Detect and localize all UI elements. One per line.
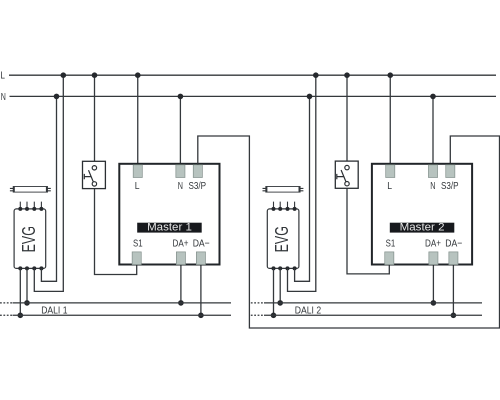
wire L to switch S2 xyxy=(346,75,348,166)
EVG1 bottom terminal dots xyxy=(18,266,22,270)
mains line L xyxy=(9,74,496,76)
wire L to master1 L pad xyxy=(137,75,139,165)
svg-text:Master 1: Master 1 xyxy=(147,222,192,234)
wire EVG2 t3 to mains L xyxy=(288,75,316,291)
pad S3/P (M1) xyxy=(193,165,202,178)
node DALI2 lower/t1' xyxy=(271,313,277,319)
junction dots system 1 xyxy=(18,72,204,318)
lamp EL2 fluorescent tube xyxy=(263,187,304,193)
node N/t4 xyxy=(54,94,60,100)
pad L (M1) xyxy=(133,165,142,178)
node DALI1 upper/DA+ xyxy=(178,300,184,306)
svg-text:N: N xyxy=(1,91,6,103)
svg-text:EVG: EVG xyxy=(18,226,39,252)
ballast EVG1 box xyxy=(14,209,46,269)
svg-text:L: L xyxy=(135,180,140,192)
pad S1 (M2) xyxy=(385,252,394,265)
wire EVG2 t2 to DALI2 upper xyxy=(279,268,281,303)
DALI 1 bus upper line xyxy=(0,303,231,315)
wire EVG1 t3 to mains L xyxy=(34,75,63,291)
DALI master unit Master 2 box xyxy=(372,164,472,265)
DALI 2 bus lower line xyxy=(251,314,264,316)
svg-text:L: L xyxy=(387,180,392,192)
svg-text:S1: S1 xyxy=(386,238,396,250)
node DALI1 lower/DA- xyxy=(198,313,204,319)
tag Master 1 xyxy=(137,222,202,234)
svg-text:Master 2: Master 2 xyxy=(400,222,445,234)
node N/t4' xyxy=(307,94,313,100)
node DALI2 upper/t2' xyxy=(277,300,283,306)
svg-text:DA−: DA− xyxy=(193,238,210,250)
wire N to master1 N pad xyxy=(179,96,181,164)
push-button switch S1 xyxy=(83,161,106,188)
wire S3/P link master1 to master2 (wrap) xyxy=(198,136,500,328)
push-button switch S2 xyxy=(335,161,358,188)
pad L (M2) xyxy=(386,165,395,178)
wire N to master2 N pad xyxy=(432,96,434,164)
pad S3/P (M2) xyxy=(446,165,455,178)
svg-text:DALI 2: DALI 2 xyxy=(295,305,321,316)
ballast EVG2 box xyxy=(267,209,299,269)
node L/switch xyxy=(92,72,98,78)
master2 terminal pads xyxy=(385,165,458,265)
tag Master 2 xyxy=(390,222,455,234)
svg-text:N: N xyxy=(430,180,435,192)
pad S1 (M1) xyxy=(132,252,141,265)
node L/t3' xyxy=(313,72,319,78)
pad N (M2) xyxy=(428,165,437,178)
DALI master unit Master 1 box xyxy=(119,164,219,265)
svg-text:N: N xyxy=(178,180,183,192)
node DALI2 upper/DA+' xyxy=(431,300,437,306)
wire EVG2 t4 to mains N xyxy=(295,96,310,281)
svg-text:S3/P: S3/P xyxy=(441,180,459,192)
pad N (M1) xyxy=(176,165,185,178)
node DALI1 upper/t2 xyxy=(24,300,30,306)
wire master2 DA+ to DALI2 upper xyxy=(432,265,434,303)
node N/master1 xyxy=(178,94,184,100)
wire switch S2 to master2 S1 pad xyxy=(347,186,389,274)
node L/switch2 xyxy=(344,72,350,78)
node DALI2 lower/DA-' xyxy=(451,313,457,319)
svg-text:S1: S1 xyxy=(133,238,143,250)
wire master2 DA- to DALI2 lower xyxy=(452,265,454,316)
pad DA- (M2) xyxy=(449,252,458,265)
wire EVG1 t4 to mains N xyxy=(41,96,56,281)
node L/master1 xyxy=(135,72,141,78)
lamp EL1 fluorescent tube xyxy=(10,187,51,193)
DALI 2 bus upper line xyxy=(251,303,482,315)
pad DA- (M1) xyxy=(196,252,205,265)
svg-text:EVG: EVG xyxy=(271,226,292,252)
svg-text:DA+: DA+ xyxy=(425,238,441,250)
wire EVG2 t1 to DALI2 lower xyxy=(273,268,275,315)
wire EVG1 t2 to DALI1 upper xyxy=(26,268,28,303)
svg-text:DA−: DA− xyxy=(445,238,462,250)
node DALI1 lower/t1 xyxy=(18,313,24,319)
master1 terminal pads xyxy=(132,165,205,265)
node L/t3 xyxy=(61,72,67,78)
EVG1 lamp pins (top) xyxy=(20,202,41,209)
mains line N xyxy=(10,95,497,97)
wire L to master2 L pad xyxy=(389,75,391,165)
junction dots system 2 xyxy=(271,72,457,318)
wire master1 DA+ to DALI1 upper xyxy=(180,265,182,303)
node L/master2 xyxy=(387,72,393,78)
pad DA+ (M2) xyxy=(429,252,438,265)
svg-text:DALI 1: DALI 1 xyxy=(41,305,67,316)
svg-text:L: L xyxy=(0,69,5,81)
pad DA+ (M1) xyxy=(176,252,185,265)
EVG2 lamp pins (top) xyxy=(274,202,295,209)
node N/master2 xyxy=(430,94,436,100)
DALI 1 bus lower line xyxy=(0,314,13,316)
svg-text:S3/P: S3/P xyxy=(189,180,207,192)
svg-text:DA+: DA+ xyxy=(173,238,189,250)
wire master1 DA- to DALI1 lower xyxy=(200,265,202,316)
EVG2 bottom terminal dots xyxy=(272,266,276,270)
wire EVG1 t1 to DALI1 lower xyxy=(19,268,21,315)
wire L to switch S1 xyxy=(94,75,96,166)
wire switch S1 to master1 S1 pad xyxy=(95,186,137,274)
